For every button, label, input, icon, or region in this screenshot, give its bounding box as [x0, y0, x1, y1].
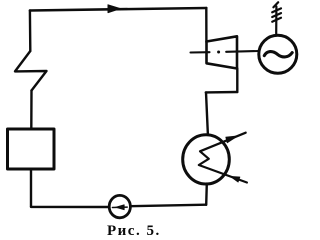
- wire top (boiler outlet to turbine inlet): [30, 8, 206, 11]
- pump arrow (pointing left): [116, 205, 125, 210]
- wire bottom right (pump to condenser): [130, 205, 206, 207]
- grid symbol tick 2: [272, 13, 281, 17]
- generator circle: [259, 35, 297, 73]
- condenser circle: [183, 135, 230, 184]
- turbine trapezoid: [207, 36, 238, 68]
- wire left upper (down from top-left corner): [29, 11, 32, 52]
- wire horizontal under turbine: [206, 91, 238, 94]
- wire turbine exhaust to condenser (vertical into condenser top): [206, 92, 208, 134]
- svg-text:Рис. 5.: Рис. 5.: [107, 223, 161, 239]
- flow arrow on top wire: [108, 5, 120, 13]
- wire turbine inlet (top corner down into turbine): [205, 8, 207, 42]
- cooling water zigzag through condenser: [199, 133, 247, 183]
- wire condenser outlet (bottom of condenser down to bottom pipe): [205, 184, 208, 205]
- pump internal flow line: [112, 206, 127, 208]
- cooling water outlet arrowhead (upper right, pointing away): [226, 136, 238, 143]
- wire turbine right edge down: [236, 69, 238, 93]
- wire boiler outlet down: [30, 169, 32, 207]
- grid symbol tick 1: [272, 8, 281, 12]
- wire generator to grid (vertical): [275, 7, 277, 34]
- cooling water inlet arrowhead (lower right, pointing into condenser): [230, 176, 240, 182]
- pipe break symbol: [15, 51, 47, 91]
- wire left lower (break to boiler): [30, 91, 33, 130]
- grid symbol tick top: [273, 2, 278, 7]
- boiler (steam generator) rectangle: [8, 129, 55, 169]
- generator tilde (~): [264, 52, 292, 57]
- shaft dash-dot line (turbine to generator): [191, 51, 210, 53]
- grid symbol tick 3: [272, 18, 281, 22]
- wire bottom left (boiler to pump): [31, 206, 109, 209]
- pump circle: [109, 195, 130, 217]
